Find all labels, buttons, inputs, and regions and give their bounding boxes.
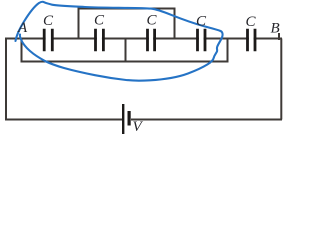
- capacitor C3 gap: [149, 37, 153, 41]
- capacitor C4 gap: [199, 37, 204, 41]
- wire bottom box horizontal: [21, 61, 229, 63]
- capacitor C5 gap: [249, 37, 254, 41]
- capacitor C1 plates: [44, 29, 52, 52]
- wire bottom box middle vertical: [125, 38, 127, 62]
- battery V long plate: [122, 104, 124, 134]
- wire bottom box left vertical: [21, 38, 23, 62]
- wire top box right vertical: [174, 9, 176, 39]
- svg-text:C: C: [94, 13, 105, 29]
- capacitor C4 plates: [198, 29, 206, 52]
- node B terminal tick: [278, 33, 280, 40]
- wire main horizontal A-B rail: [5, 38, 282, 40]
- wire bottom rail right: [131, 119, 282, 121]
- annotation blue loop: [16, 2, 223, 81]
- capacitor C3 plates: [148, 29, 155, 52]
- capacitor C5 plates: [248, 29, 256, 52]
- svg-text:C: C: [246, 14, 257, 30]
- wire top box left vertical: [78, 9, 80, 39]
- svg-text:V: V: [133, 119, 144, 135]
- wire bottom box right vertical: [227, 38, 229, 62]
- wire bottom rail: [5, 119, 122, 121]
- wire left outer vertical: [5, 38, 7, 120]
- svg-text:B: B: [271, 20, 280, 36]
- svg-text:C: C: [43, 13, 54, 29]
- wire right outer vertical: [280, 39, 282, 120]
- svg-text:A: A: [17, 20, 28, 36]
- capacitor C2 gap: [97, 37, 102, 41]
- capacitor C2 plates: [96, 29, 104, 52]
- svg-text:C: C: [147, 13, 158, 29]
- svg-text:C: C: [196, 14, 207, 30]
- capacitor C1 gap: [46, 37, 51, 41]
- battery V short plate: [128, 111, 131, 126]
- wire top box horizontal: [78, 8, 176, 10]
